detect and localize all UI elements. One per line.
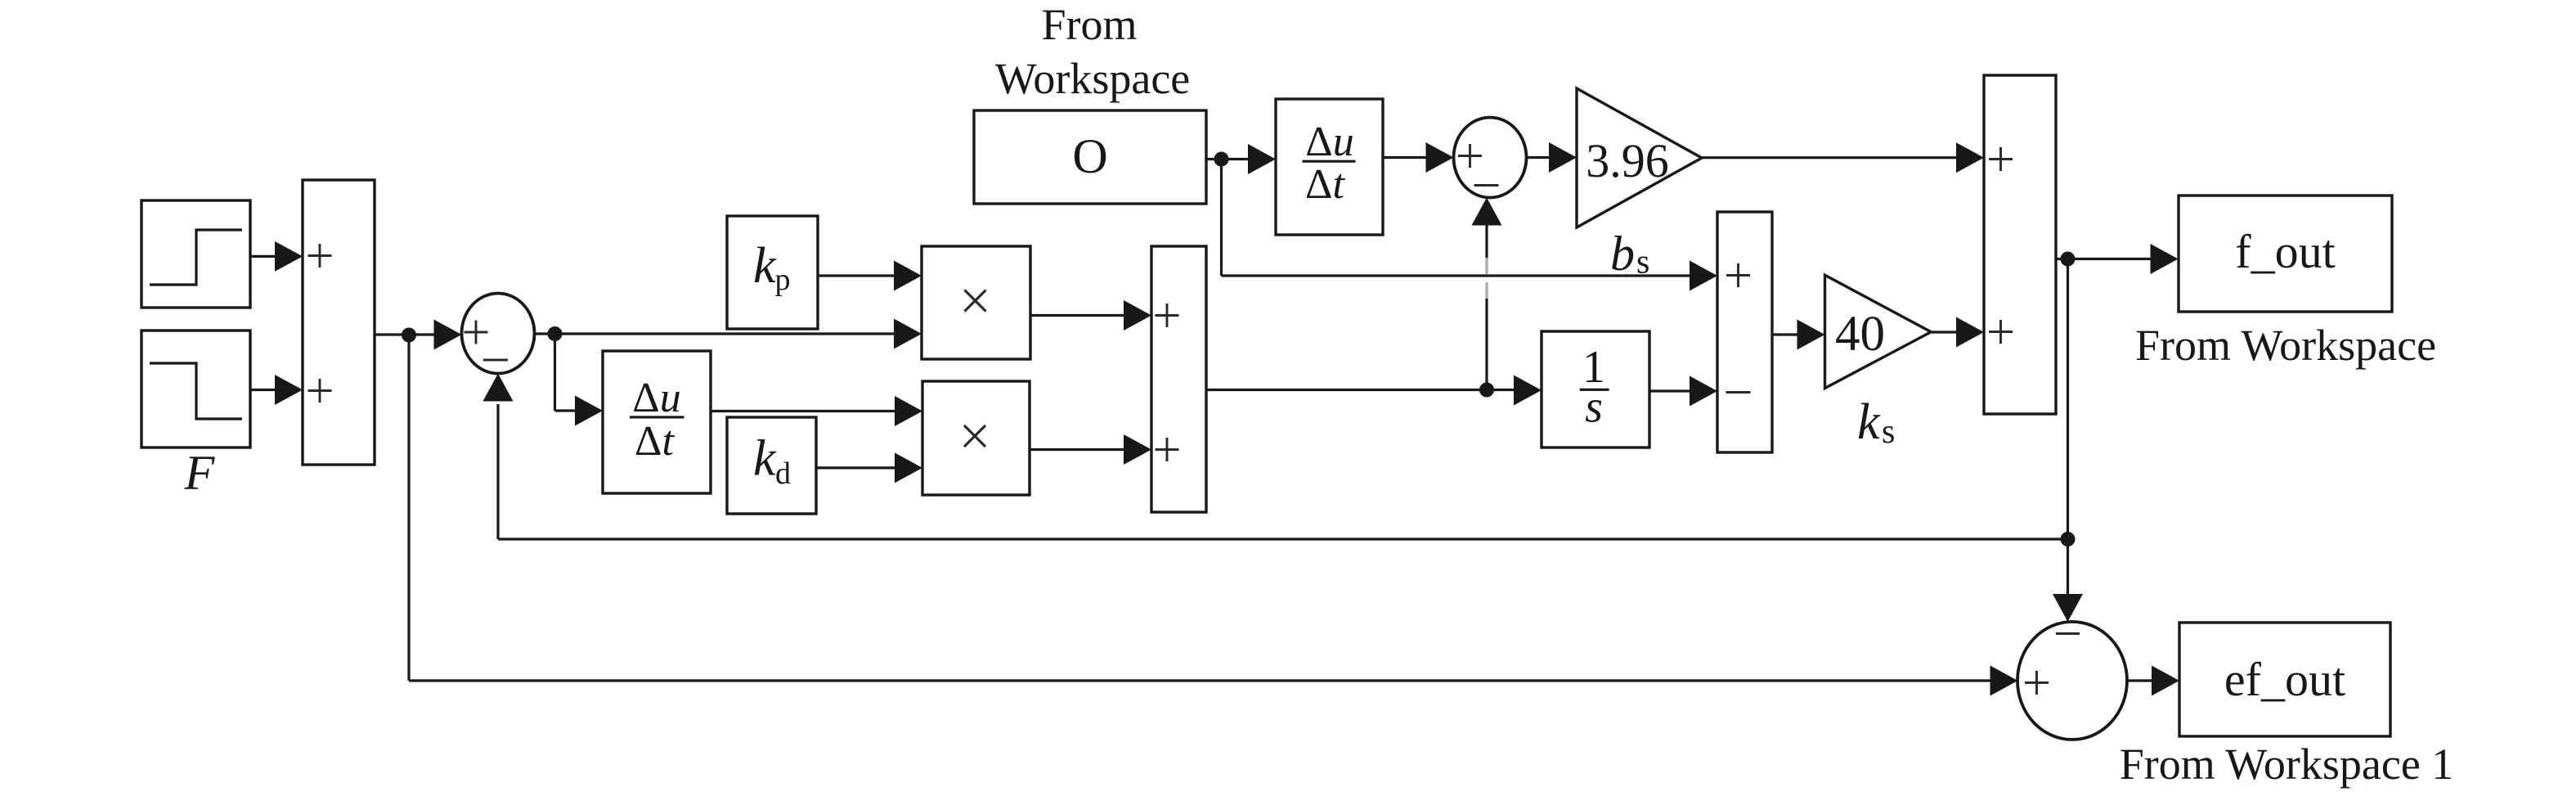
svg-text:40: 40 (1835, 307, 1885, 362)
svg-text:ef_out: ef_out (2224, 653, 2345, 706)
svg-text:bs: bs (1610, 227, 1649, 281)
svg-text:Δt: Δt (1305, 161, 1345, 208)
svg-text:s: s (1585, 382, 1603, 433)
svg-text:F: F (184, 446, 216, 500)
svg-text:Δu: Δu (1305, 119, 1353, 165)
svg-text:f_out: f_out (2235, 225, 2335, 278)
svg-text:From Workspace: From Workspace (2135, 321, 2436, 370)
svg-text:Δt: Δt (635, 418, 675, 465)
svg-text:3.96: 3.96 (1586, 134, 1669, 187)
svg-text:kp: kp (753, 238, 791, 297)
svg-text:From: From (1041, 0, 1137, 49)
svg-text:Δu: Δu (632, 375, 680, 421)
svg-text:From Workspace 1: From Workspace 1 (2120, 740, 2454, 789)
svg-text:ks: ks (1857, 394, 1895, 451)
svg-text:O: O (1072, 129, 1107, 183)
svg-text:kd: kd (753, 431, 791, 492)
svg-text:Workspace: Workspace (995, 54, 1191, 103)
